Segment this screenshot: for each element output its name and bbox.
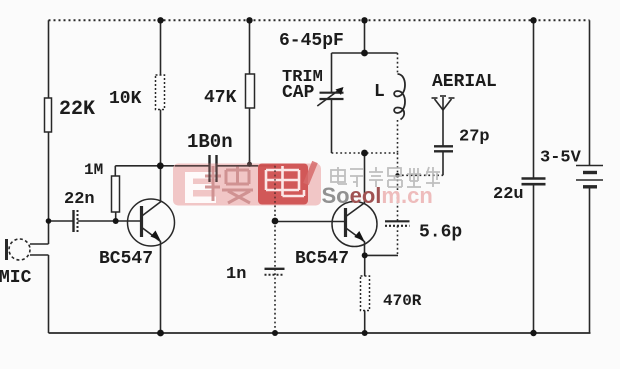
svg-text:470R: 470R — [383, 292, 422, 310]
svg-text:L: L — [374, 82, 385, 102]
svg-text:6-45pF: 6-45pF — [279, 31, 344, 51]
svg-text:47K: 47K — [204, 88, 237, 108]
svg-text:MIC: MIC — [0, 268, 32, 288]
svg-text:1M: 1M — [84, 161, 103, 179]
svg-text:27p: 27p — [459, 128, 490, 147]
svg-text:1B0n: 1B0n — [187, 131, 233, 153]
svg-text:1n: 1n — [226, 265, 246, 284]
svg-text:BC547: BC547 — [295, 249, 349, 269]
svg-text:5.6p: 5.6p — [419, 223, 462, 243]
svg-text:22n: 22n — [64, 190, 95, 209]
svg-text:22K: 22K — [59, 98, 95, 121]
svg-text:22u: 22u — [493, 185, 524, 204]
svg-text:BC547: BC547 — [99, 249, 153, 269]
svg-text:CAP: CAP — [282, 83, 315, 103]
svg-text:3-5V: 3-5V — [540, 149, 582, 168]
svg-text:10K: 10K — [109, 89, 142, 109]
svg-text:Soeolm.cn: Soeolm.cn — [322, 183, 433, 208]
svg-text:AERIAL: AERIAL — [432, 72, 497, 92]
